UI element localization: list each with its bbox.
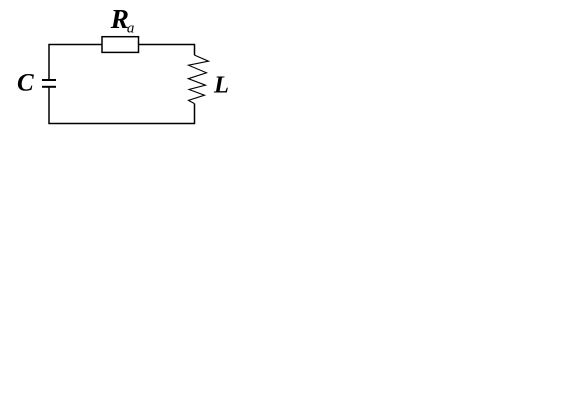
wire top-left to resistor (top side) [49, 45, 102, 81]
svg-text:C: C [17, 69, 34, 96]
inductor L (zigzag) [188, 55, 208, 104]
resistor Ra (box) [102, 37, 139, 53]
wire inductor to bottom wire [49, 87, 195, 124]
svg-text:a: a [127, 21, 134, 37]
capacitor C (plates) [42, 79, 56, 81]
wire resistor to top-right corner [139, 45, 195, 56]
svg-text:L: L [213, 72, 229, 99]
